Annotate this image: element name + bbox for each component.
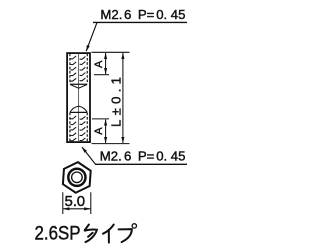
top tapped hole dashed thread lines [69, 54, 71, 84]
svg-text:2.6SP: 2.6SP [35, 223, 81, 245]
svg-text:5.: 5. [65, 193, 78, 210]
bottom hole thread hatch right band [80, 116, 86, 140]
hex view inner thread circle [72, 172, 83, 183]
svg-text:P=: P= [138, 149, 155, 164]
svg-text:M2.: M2. [100, 7, 122, 22]
svg-text:M2.: M2. [100, 149, 122, 164]
bottom tapped hole dashed thread lines [69, 113, 71, 142]
5.0 extension line right [90, 192, 92, 214]
top hole thread hatch left band [70, 56, 76, 81]
bottom leader line with arrow [82, 147, 96, 164]
bottom tapped hole drill cone dome [70, 106, 87, 112]
bottom callout underline [95, 163, 187, 165]
top hole drill cone [70, 85, 87, 89]
svg-text:0.: 0. [156, 149, 167, 164]
svg-text:6: 6 [124, 7, 131, 22]
top thread callout text M2.6 P=0.45 [100, 7, 185, 22]
caption katakana PU [119, 229, 132, 242]
svg-text:L±0.1: L±0.1 [109, 77, 124, 127]
5.0 dimension line [63, 208, 90, 210]
caption katakana PU handakuten [132, 224, 136, 228]
caption katakana TA [85, 225, 97, 243]
dimension text 5.0 [65, 193, 86, 210]
svg-text:P=: P= [138, 7, 155, 22]
bottom hole top line [70, 111, 87, 113]
svg-text:A: A [93, 60, 105, 68]
hex view outer thread circle [68, 169, 85, 186]
bottom hole thread hatch left band [70, 116, 76, 141]
top hole bottom line [70, 83, 87, 85]
bottom thread callout text M2.6 P=0.45 [100, 149, 186, 164]
extension line thread depth bottom A [92, 118, 109, 120]
svg-text:45: 45 [171, 149, 186, 164]
top hole thread hatch right band [80, 57, 86, 81]
centerline [78, 54, 80, 142]
hex end view hexagon [62, 161, 91, 193]
dimension line A top [105, 53, 107, 74]
caption katakana I [103, 225, 114, 243]
top leader line with arrow [86, 22, 97, 51]
spacer body outline [67, 53, 90, 142]
top callout underline [93, 21, 187, 23]
extension line bottom [92, 143, 130, 145]
5.0 extension line left [62, 192, 64, 214]
svg-text:0.: 0. [156, 7, 167, 22]
svg-text:6: 6 [124, 149, 131, 164]
dimension line A bottom [105, 120, 107, 143]
dimension line L [122, 53, 124, 143]
svg-text:0: 0 [77, 193, 85, 210]
svg-text:45: 45 [171, 7, 186, 22]
extension line thread depth top A [94, 74, 109, 76]
svg-text:A: A [93, 127, 105, 135]
extension line top [92, 51, 130, 53]
